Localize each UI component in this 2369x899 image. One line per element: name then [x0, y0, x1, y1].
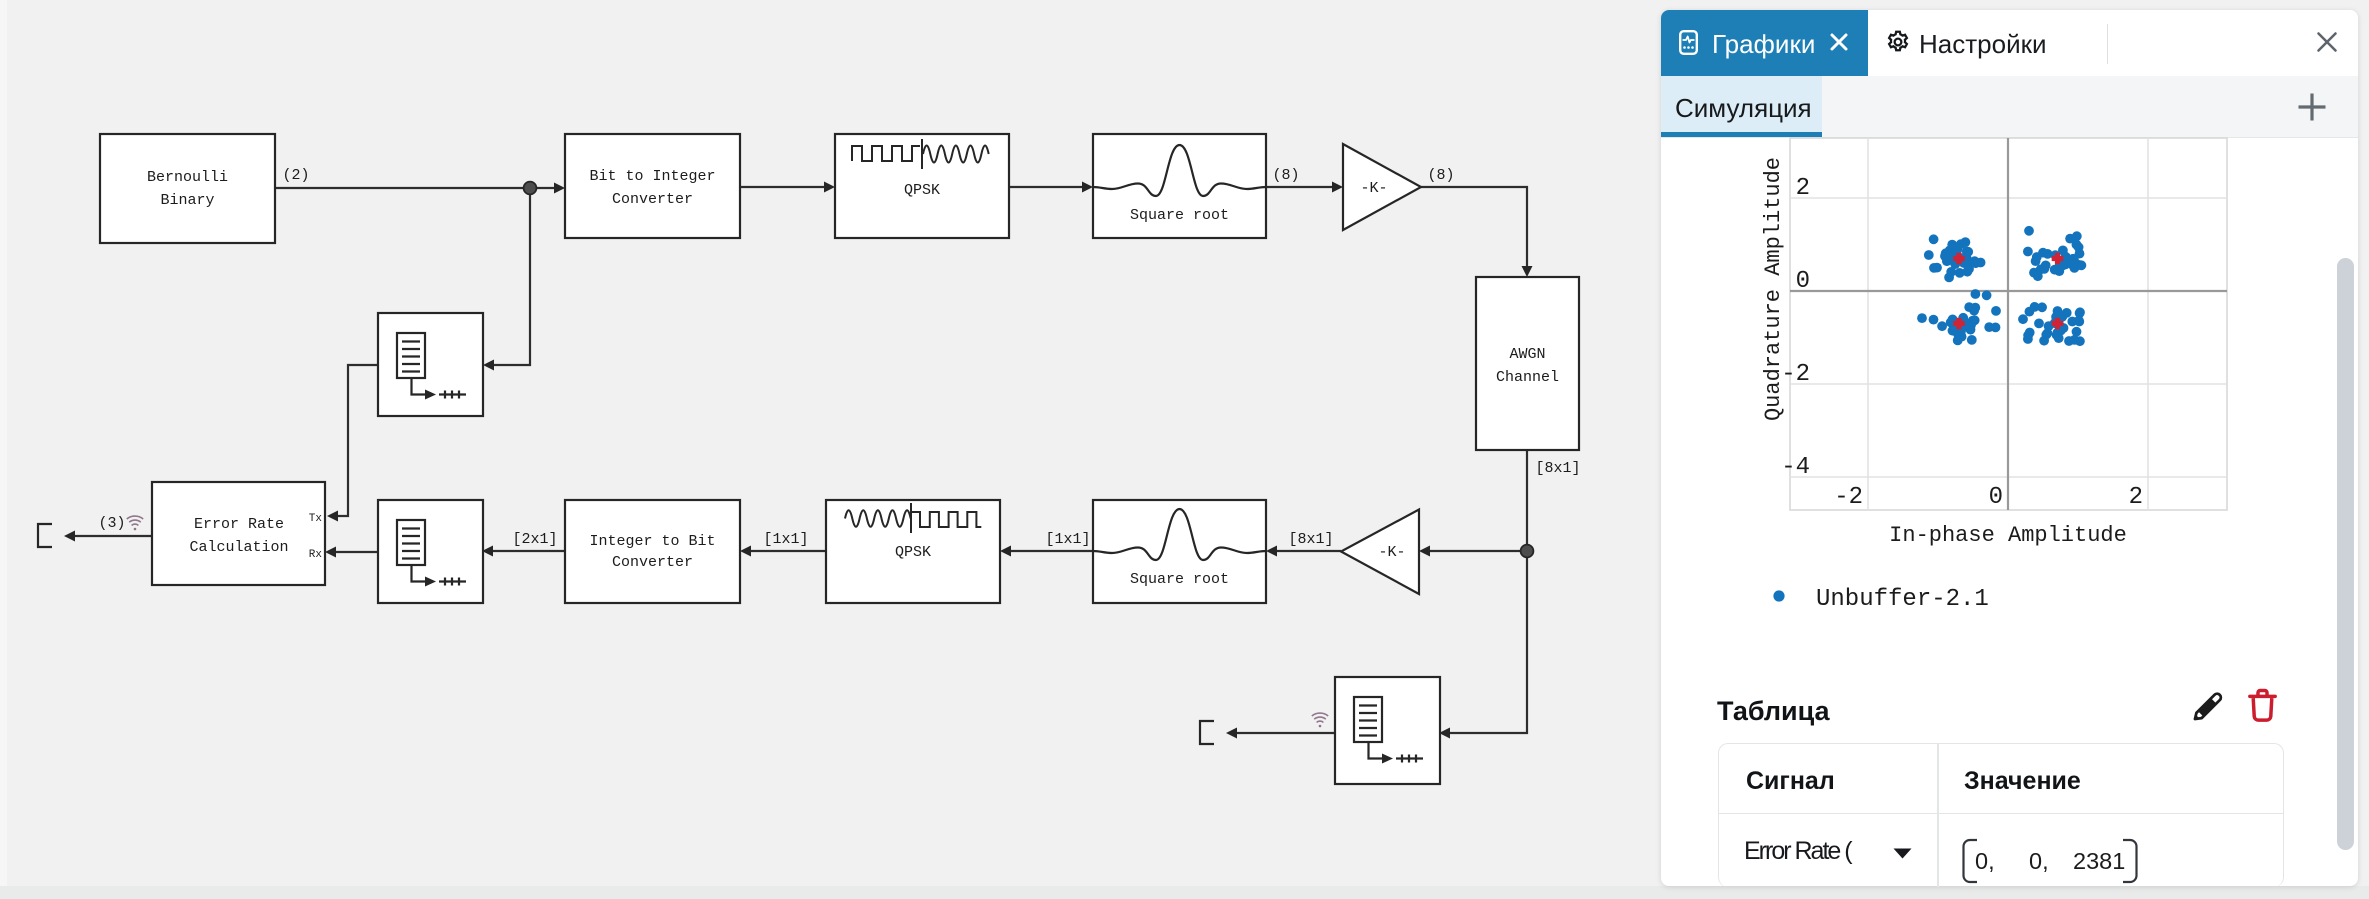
tab title Графики: [1712, 29, 1815, 60]
terminator T2: [1200, 721, 1214, 744]
gain K2 (triangle, left-pointing): [1341, 510, 1419, 595]
pencil edit icon: [2190, 689, 2225, 724]
svg-text:Tx: Tx: [309, 513, 323, 525]
tab Настройки: gear icon: [1885, 29, 1911, 55]
signals table: [1718, 743, 2284, 887]
tab title Настройки: [1919, 29, 2047, 60]
wire Integer-to-Bit to Unbuffer2: [491, 550, 565, 552]
block Square root (raised cosine tx filter): [1093, 134, 1266, 238]
svg-text:-4: -4: [1781, 454, 1810, 481]
arrowhead into Error-Rate Tx: [327, 511, 338, 522]
block QPSK demodulator U2: [826, 500, 1000, 603]
svg-text:0: 0: [1796, 268, 1810, 295]
arrowhead into Unbuffer3: [1439, 728, 1450, 739]
svg-text:Bit to Integer: Bit to Integer: [589, 168, 715, 185]
subtab underline: [1661, 132, 1822, 137]
block Square root 2 (raised cosine rx filter): [1093, 500, 1266, 603]
wifi badge at Unbuffer3 output: [1312, 713, 1328, 727]
svg-text:Rx: Rx: [309, 549, 323, 561]
svg-text:Binary: Binary: [160, 192, 214, 209]
wire junction to Gain2: [1428, 550, 1527, 552]
svg-text:Square root: Square root: [1130, 207, 1229, 224]
block QPSK modulator U1: [835, 134, 1009, 238]
subtab row: [1661, 76, 2358, 138]
arrowhead into QPSK2: [1000, 546, 1011, 557]
svg-text:Integer to Bit: Integer to Bit: [589, 533, 715, 550]
wire Bernoulli to junction to Bit-to-Integer: [275, 187, 557, 189]
wire Error-Rate out to terminator: [74, 535, 152, 537]
wire Square-root to Gain1: [1266, 186, 1335, 188]
arrowhead into Unbuffer2: [482, 546, 493, 557]
arrowhead into Bit-to-Integer: [554, 183, 565, 194]
arrowhead into Square-root: [1082, 182, 1093, 193]
svg-text:[8x1]: [8x1]: [1288, 531, 1333, 548]
svg-text:QPSK: QPSK: [904, 182, 940, 199]
arrowhead into Error-Rate Rx: [325, 547, 336, 558]
svg-text:(3): (3): [98, 515, 125, 532]
arrowhead into Gain1: [1332, 182, 1343, 193]
scope icon: [1679, 30, 1698, 55]
zero axes: [1790, 138, 2227, 510]
cluster (-0.7,+0.7): [1950, 259, 1960, 269]
bottom window strip: [0, 886, 2369, 899]
header Значение: [1964, 767, 2081, 796]
scatter series Unbuffer-2.1: [1917, 226, 2086, 346]
gridlines: [1790, 138, 2227, 510]
wire Unbuffer2 to Error-Rate Rx: [334, 551, 378, 553]
wire Bit-to-Integer to QPSK: [740, 186, 827, 188]
add-tab plus icon: [2296, 91, 2328, 123]
gain K1 (triangle): [1343, 144, 1421, 230]
svg-text:Calculation: Calculation: [189, 539, 288, 556]
charts side panel: [1661, 10, 2358, 886]
svg-text:2: 2: [2129, 484, 2143, 511]
svg-text:0: 0: [1989, 484, 2003, 511]
tab bar: [1661, 10, 2358, 76]
legend marker: [1773, 590, 1784, 601]
svg-text:Error Rate: Error Rate: [194, 516, 284, 533]
junction node B (right): [1521, 545, 1534, 558]
wire Unbuffer1 to Error-Rate Tx: [336, 365, 378, 516]
scatter chart: [1661, 137, 2358, 649]
tab separator: [2107, 24, 2108, 64]
svg-text:-K-: -K-: [1360, 180, 1387, 197]
wifi badge at Error-Rate output: [127, 516, 143, 530]
svg-text:[2x1]: [2x1]: [512, 531, 557, 548]
svg-text:Converter: Converter: [612, 191, 693, 208]
wire Square-root2 to QPSK2: [1009, 550, 1093, 552]
subtab Симуляция: [1661, 76, 1822, 137]
plot border: [1790, 138, 2227, 510]
arrowhead into AWGN top: [1522, 266, 1533, 277]
svg-text:0,0,2381: 0,0,2381: [1975, 848, 2125, 874]
left window edge highlight: [0, 0, 7, 899]
trash delete icon: [2247, 686, 2278, 725]
x tick labels: [1834, 484, 2143, 511]
svg-text:Converter: Converter: [612, 554, 693, 571]
wire QPSK2 to Integer-to-Bit: [749, 550, 826, 552]
svg-text:(8): (8): [1272, 167, 1299, 184]
block Unbuffer1: [378, 313, 483, 416]
Таблица header: [1717, 696, 1830, 727]
cluster (+0.7,-0.7): [2056, 326, 2066, 336]
svg-text:2: 2: [1796, 175, 1810, 202]
svg-text:-K-: -K-: [1378, 544, 1405, 561]
reference constellation markers (red +): [1953, 253, 2063, 330]
svg-text:(2): (2): [282, 167, 309, 184]
arrowhead into Unbuffer1: [483, 360, 494, 371]
arrowhead into terminator: [64, 531, 75, 542]
svg-text:In-phase Amplitude: In-phase Amplitude: [1889, 523, 2127, 548]
svg-text:(8): (8): [1427, 167, 1454, 184]
junction node A (top): [524, 182, 537, 195]
svg-text:Bernoulli: Bernoulli: [147, 169, 228, 186]
arrowhead into terminator2: [1226, 728, 1237, 739]
svg-text:Square root: Square root: [1130, 571, 1229, 588]
svg-text:AWGN: AWGN: [1509, 346, 1545, 363]
wire Gain1 to AWGN (corner): [1421, 187, 1527, 269]
wire junction down to Unbuffer1 input: [491, 188, 530, 365]
block Bernoulli Binary: [100, 134, 275, 243]
block Unbuffer2: [378, 500, 483, 603]
svg-text:[8x1]: [8x1]: [1535, 460, 1580, 477]
arrowhead into Square-root2: [1266, 546, 1277, 557]
svg-text:[1x1]: [1x1]: [1045, 531, 1090, 548]
svg-text:[1x1]: [1x1]: [763, 531, 808, 548]
svg-text:Unbuffer-2.1: Unbuffer-2.1: [1816, 586, 1989, 613]
panel scrollbar thumb: [2337, 258, 2354, 850]
svg-text:-2: -2: [1834, 484, 1863, 511]
terminator T1: [38, 524, 52, 547]
arrowhead into QPSK: [824, 182, 835, 193]
svg-text:Channel: Channel: [1496, 369, 1559, 386]
y tick labels: [1781, 175, 1810, 481]
wire QPSK to Square-root: [1010, 186, 1085, 188]
arrowhead into Integer-to-Bit: [740, 546, 751, 557]
cluster (-0.7,-0.7): [1952, 322, 1962, 332]
block Bit to Integer Converter: [565, 134, 740, 238]
wire AWGN down through junction to Unbuffer3: [1448, 450, 1527, 733]
tab close X (white): [1829, 32, 1849, 52]
wire Unbuffer3 out to terminator2: [1237, 732, 1335, 734]
block AWGN Channel: [1476, 277, 1579, 450]
row: signal name + dropdown: [1744, 837, 1851, 866]
block Unbuffer3: [1335, 677, 1440, 784]
block Error Rate Calculation: [152, 482, 325, 585]
block Integer to Bit Converter: [565, 500, 740, 603]
svg-text:Quadrature Amplitude: Quadrature Amplitude: [1761, 157, 1786, 421]
header Сигнал: [1746, 767, 1835, 796]
arrowhead into Gain2: [1419, 546, 1430, 557]
svg-text:QPSK: QPSK: [895, 544, 931, 561]
row: value with matrix brackets: [1961, 838, 2139, 884]
active tab Графики: [1661, 10, 1868, 76]
panel close X (gray): [2317, 32, 2337, 52]
wire Gain2 to Square-root2: [1275, 550, 1341, 552]
cluster (+0.7,+0.7): [2038, 248, 2048, 258]
